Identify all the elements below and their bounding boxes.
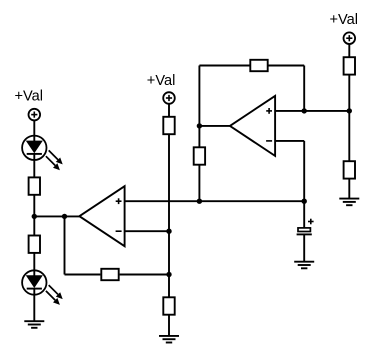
wire: [168, 231, 170, 274]
node n1: [32, 214, 37, 219]
node n9: [347, 108, 352, 113]
op-amp U1: [79, 186, 124, 246]
wire: [33, 216, 35, 235]
svg-text:+Val: +Val: [15, 89, 44, 105]
power supply +Val (left): [15, 89, 44, 121]
node n6: [197, 199, 202, 204]
resistor R5: [194, 147, 205, 164]
capacitor C1: [297, 219, 314, 235]
node n10: [302, 199, 307, 204]
wire: [125, 200, 305, 202]
ground (left): [24, 321, 44, 328]
wire: [199, 65, 250, 67]
wire: [34, 215, 79, 217]
wire: [33, 295, 35, 322]
wire: [303, 201, 305, 228]
wire: [348, 75, 350, 162]
wire: [33, 195, 35, 217]
ground (right): [339, 199, 359, 206]
wire: [168, 134, 170, 231]
wire: [168, 315, 170, 336]
ground (capacitor): [294, 262, 314, 269]
wire: [120, 274, 169, 276]
wire: [33, 253, 35, 271]
node n4: [166, 229, 171, 234]
wire: [303, 66, 305, 111]
svg-text:+Val: +Val: [330, 12, 359, 28]
wire: [303, 234, 305, 261]
wire: [268, 65, 305, 67]
op-amp U2: [230, 96, 275, 156]
wire: [198, 165, 200, 202]
resistor R8: [344, 57, 355, 74]
wire: [198, 126, 200, 147]
resistor R2: [29, 236, 40, 253]
wire: [65, 274, 101, 276]
wire: [33, 160, 35, 178]
wire: [168, 104, 170, 117]
resistor R9: [344, 161, 355, 178]
node n5: [166, 272, 171, 277]
wire: [348, 179, 350, 199]
wire: [275, 140, 305, 142]
resistor R6: [101, 269, 118, 280]
power supply +Val (middle): [147, 73, 176, 104]
svg-text:+Val: +Val: [147, 73, 176, 89]
resistor R3: [163, 117, 174, 134]
wire: [348, 44, 350, 57]
wire: [64, 216, 66, 274]
wire: [199, 125, 230, 127]
wire: [198, 66, 200, 126]
node n2: [62, 214, 67, 219]
wire: [168, 275, 170, 298]
power supply +Val (right): [330, 12, 359, 44]
node n8: [302, 108, 307, 113]
wire: [125, 230, 169, 232]
node n7: [197, 123, 202, 128]
ground (middle): [159, 336, 179, 343]
LED D1: [22, 136, 63, 171]
resistor R4: [250, 60, 267, 71]
resistor R1: [29, 177, 40, 194]
resistor R7: [163, 297, 174, 314]
wire: [33, 120, 35, 136]
wire: [275, 110, 350, 112]
wire: [303, 141, 305, 201]
LED D2: [22, 270, 63, 305]
